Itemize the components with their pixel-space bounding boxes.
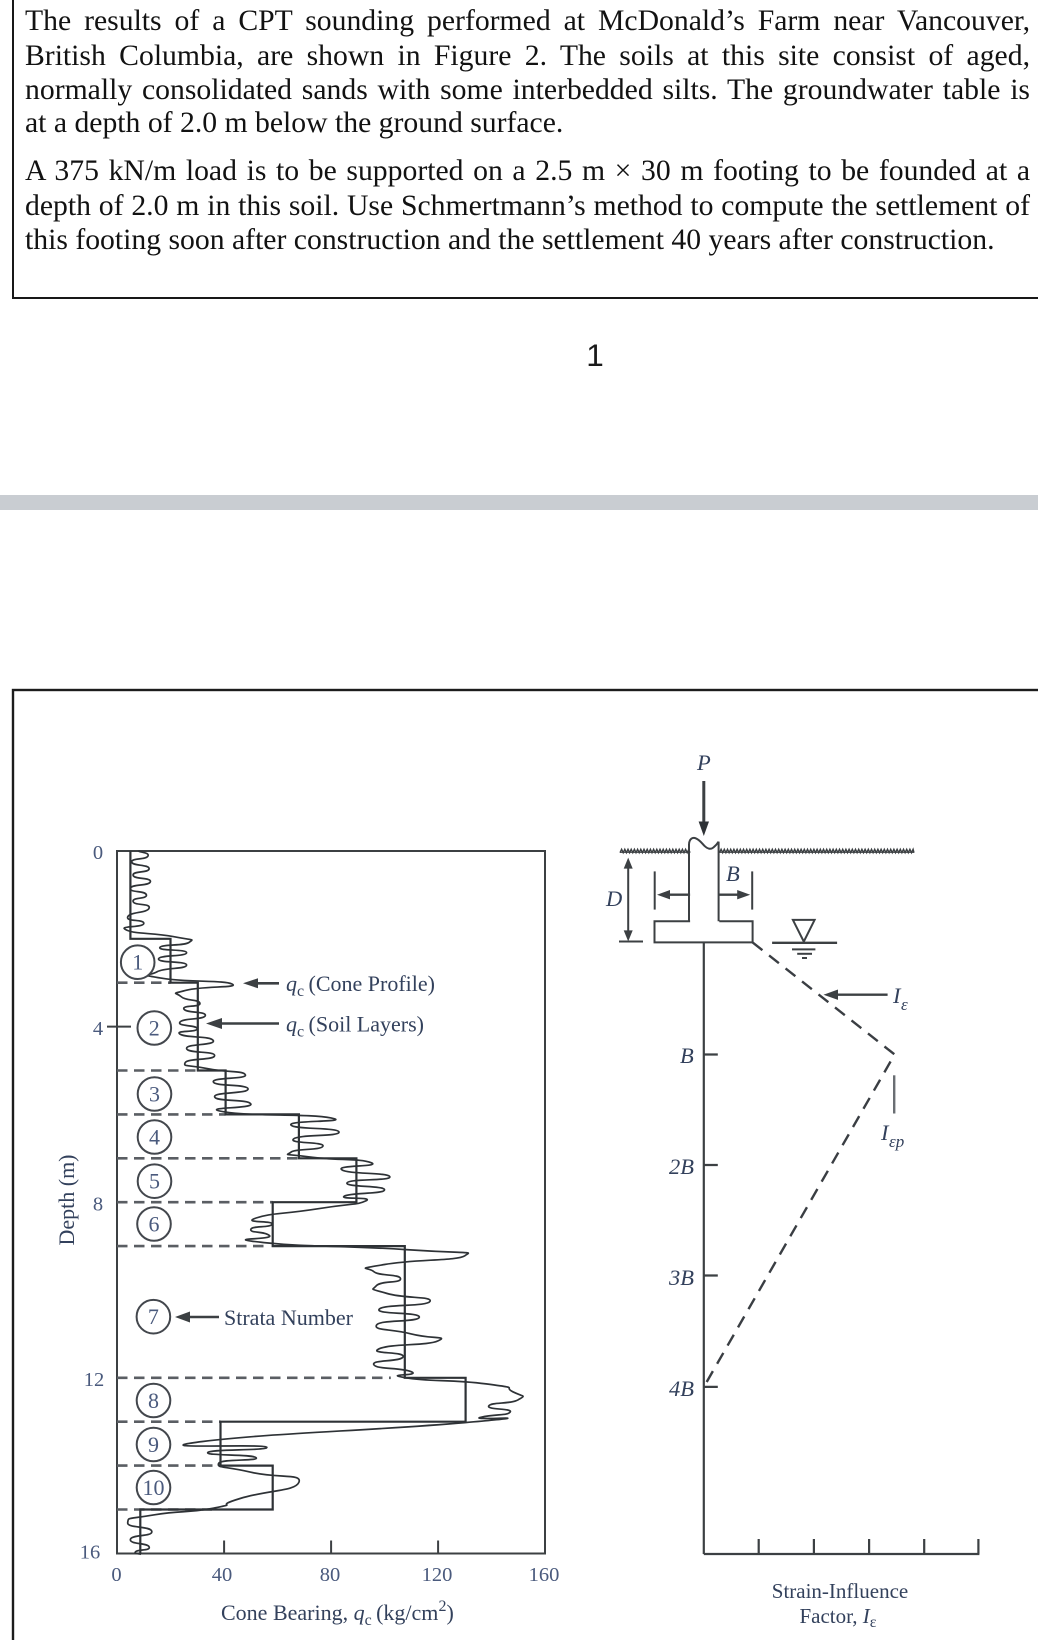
- svg-text:qc (Cone Profile): qc (Cone Profile): [286, 971, 435, 1000]
- svg-text:4: 4: [93, 1018, 103, 1040]
- load arrow P: [702, 781, 705, 822]
- ground surface hatch right: [720, 849, 915, 852]
- svg-text:2B: 2B: [669, 1154, 694, 1179]
- strata circle 9: [137, 1428, 171, 1462]
- svg-text:12: 12: [84, 1369, 105, 1391]
- svg-text:8: 8: [148, 1388, 159, 1413]
- P arrowhead: [699, 822, 709, 837]
- svg-text:10: 10: [143, 1475, 165, 1500]
- Ie arrowhead: [824, 990, 839, 1000]
- svg-text:Factor, Iε: Factor, Iε: [799, 1604, 876, 1631]
- depth axis ticks B 2B 3B 4B: [704, 1055, 718, 1387]
- ground surface base lines: [620, 851, 689, 853]
- svg-text:2: 2: [149, 1016, 160, 1041]
- left chart frame: [117, 851, 545, 1554]
- svg-text:ε: ε: [901, 995, 908, 1014]
- water table lines: [772, 942, 837, 944]
- svg-text:P: P: [696, 750, 711, 775]
- soil layers stepped line: [130, 851, 465, 1553]
- svg-text:5: 5: [149, 1169, 160, 1194]
- svg-text:80: 80: [320, 1564, 341, 1586]
- paragraph 1 line 4: [25, 106, 1030, 142]
- right diagram labels: [605, 750, 908, 1401]
- axis numbers: [80, 842, 560, 1586]
- paragraph 2 line 2: [25, 189, 1030, 225]
- svg-text:Depth (m): Depth (m): [54, 1154, 79, 1245]
- strata circle 4: [138, 1120, 172, 1154]
- soil layers callout arrow head: [206, 1018, 222, 1029]
- paragraph 2 line 3: [25, 223, 1030, 259]
- svg-text:qc (Soil Layers): qc (Soil Layers): [286, 1012, 424, 1041]
- influence depth axis: [703, 942, 705, 1554]
- svg-text:εp: εp: [889, 1132, 904, 1151]
- svg-text:0: 0: [93, 842, 103, 864]
- Ie arrow: [836, 994, 888, 996]
- strata circle 3: [138, 1077, 172, 1111]
- strain axis ticks: [759, 1539, 979, 1554]
- page number: [560, 340, 630, 372]
- svg-text:Cone Bearing, qc (kg/cm2): Cone Bearing, qc (kg/cm2): [221, 1598, 454, 1629]
- x-axis inner ticks: [224, 1541, 438, 1554]
- B dimension arrows: [668, 894, 690, 896]
- ground surface hatch left: [620, 849, 690, 852]
- svg-text:4B: 4B: [669, 1376, 694, 1401]
- svg-text:160: 160: [529, 1564, 560, 1586]
- paragraph 1 line 2: [25, 39, 1030, 75]
- Iep peak marker line: [893, 1075, 895, 1113]
- strain influence factor axis: [704, 1553, 980, 1555]
- cone profile callout arrow: [180, 983, 279, 1317]
- strata circle 1: [121, 945, 155, 979]
- svg-text:16: 16: [80, 1542, 101, 1564]
- svg-text:3B: 3B: [668, 1265, 694, 1290]
- paragraph 1 line 3: [25, 73, 1030, 109]
- footing outline: [655, 921, 753, 942]
- chart text labels: [54, 971, 454, 1629]
- strata circle 8: [137, 1384, 171, 1418]
- svg-text:1: 1: [132, 950, 143, 975]
- separator gray bar: [0, 495, 1038, 510]
- svg-text:Strata Number: Strata Number: [224, 1305, 354, 1330]
- svg-text:120: 120: [422, 1564, 453, 1586]
- layer boundary dashed lines: [117, 983, 391, 1510]
- strata circle 6: [137, 1207, 171, 1241]
- D dimension arrow: [627, 862, 629, 936]
- strata circle 7: [137, 1300, 171, 1334]
- paragraph 1 line 1: [25, 4, 1030, 40]
- strain influence dashed line: [704, 942, 895, 1387]
- svg-text:B: B: [680, 1043, 694, 1068]
- D bottom reference tick: [619, 941, 643, 943]
- svg-text:3: 3: [149, 1082, 160, 1107]
- strata circle 2: [138, 1011, 172, 1045]
- svg-text:6: 6: [149, 1212, 160, 1237]
- strata circle 10: [137, 1471, 171, 1505]
- column with break symbol: [688, 844, 690, 921]
- water table triangle: [793, 920, 815, 942]
- depth tick at 4 m: [107, 1026, 131, 1028]
- svg-text:Strain-Influence: Strain-Influence: [772, 1579, 908, 1603]
- svg-text:4: 4: [149, 1125, 160, 1150]
- B arrowheads: [657, 890, 670, 899]
- svg-text:D: D: [605, 886, 622, 911]
- svg-text:0: 0: [111, 1564, 121, 1586]
- svg-text:B: B: [726, 861, 740, 886]
- svg-text:40: 40: [212, 1564, 233, 1586]
- problem statement box: [12, 0, 1038, 299]
- D arrowheads: [624, 858, 633, 869]
- svg-text:8: 8: [93, 1194, 103, 1216]
- svg-text:9: 9: [148, 1432, 159, 1457]
- strata circle 5: [138, 1164, 172, 1198]
- strata number callout arrow head: [175, 1312, 190, 1323]
- strain axis title: [772, 1579, 908, 1631]
- figure outer box: [13, 690, 1038, 1640]
- svg-text:7: 7: [148, 1304, 159, 1329]
- cone profile curve: [124, 851, 523, 1554]
- B dimension bars: [654, 871, 656, 909]
- paragraph 2 line 1: [25, 154, 1030, 190]
